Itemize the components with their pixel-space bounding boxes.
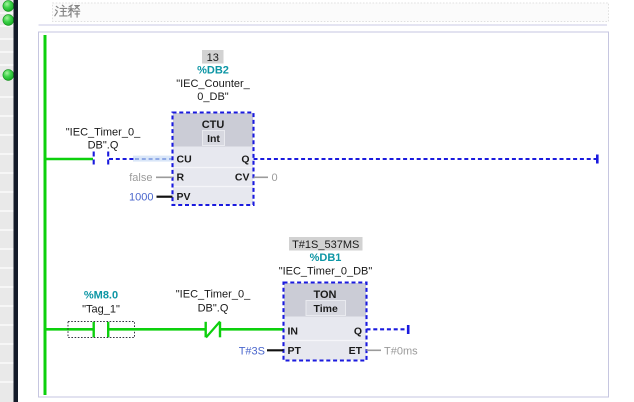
wire rail to contact (energized) — [45, 158, 93, 161]
svg-text:PT: PT — [288, 345, 302, 357]
block selection border (dashed blue) — [173, 113, 254, 206]
svg-text:"Tag_1": "Tag_1" — [82, 304, 120, 316]
highlighted wire segment background — [133, 156, 173, 162]
NO contact (selected, dashed blue) — [94, 152, 109, 166]
wire Q output open branch (selected dashed) — [367, 328, 408, 330]
status LED green row 6 — [3, 70, 14, 81]
svg-text:Time: Time — [314, 303, 338, 315]
wire Q output open branch (selected dashed) — [254, 158, 598, 160]
wire contact to NC contact — [108, 328, 205, 331]
svg-text:TON: TON — [313, 289, 336, 301]
注 — [55, 6, 58, 16]
open branch end tick — [596, 155, 599, 164]
svg-text:false: false — [129, 172, 152, 184]
operand selection box (dotted) — [68, 322, 135, 338]
svg-text:"IEC_Timer_0_: "IEC_Timer_0_ — [66, 127, 141, 139]
network comment box — [53, 3, 609, 22]
svg-text:Q: Q — [241, 154, 249, 166]
wire ET output — [367, 349, 382, 351]
block selection border (dashed blue) — [284, 283, 367, 361]
NO contact Tag_1 (energized) — [94, 322, 109, 338]
svg-text:Q: Q — [354, 326, 362, 338]
status LED green row 1 — [3, 1, 14, 12]
power rail (left, energized green) — [44, 35, 47, 395]
separator line under comment — [39, 24, 608, 26]
释 — [68, 5, 73, 17]
operand label "IEC_Timer_0_DB".Q — [66, 127, 141, 152]
data type badge Int — [203, 131, 225, 146]
status LED green row 2 — [3, 15, 14, 26]
left status gutter rows — [0, 0, 14, 402]
wire false to R — [156, 176, 173, 178]
wire 1000 to PV — [157, 196, 173, 198]
svg-text:13: 13 — [207, 52, 219, 64]
svg-text:IN: IN — [288, 326, 299, 338]
timer block U2 TON body — [284, 283, 366, 360]
data type badge Time — [306, 301, 346, 316]
dark divider bar — [14, 0, 19, 402]
svg-text:DB".Q: DB".Q — [198, 303, 229, 315]
svg-text:T#0ms: T#0ms — [384, 346, 418, 358]
svg-text:T#1S_537MS: T#1S_537MS — [292, 239, 359, 251]
wire rail to contact 2 (energized) — [45, 328, 93, 331]
svg-text:PV: PV — [177, 191, 191, 203]
svg-text:"IEC_Timer_0_DB": "IEC_Timer_0_DB" — [279, 266, 373, 278]
wire T#3S to PT — [267, 349, 284, 351]
comment text 注释 (drawn glyphs) — [55, 5, 80, 17]
svg-text:%DB2: %DB2 — [197, 65, 229, 77]
svg-text:CU: CU — [177, 154, 192, 166]
monitor value box T#1S_537MS — [289, 237, 363, 251]
svg-text:DB".Q: DB".Q — [88, 140, 119, 152]
svg-text:%DB1: %DB1 — [310, 252, 342, 264]
NC contact (energized) — [206, 322, 220, 338]
wire NC contact to IN — [220, 328, 284, 331]
open branch end tick — [407, 325, 410, 334]
wire contact to CU (selected dashed) — [109, 158, 135, 160]
wire CV output — [254, 176, 269, 178]
svg-text:Int: Int — [207, 133, 220, 145]
call info box "13" — [202, 50, 224, 64]
counter block U1 CTU body — [173, 113, 253, 205]
svg-text:CV: CV — [235, 172, 250, 184]
svg-text:0: 0 — [272, 172, 278, 184]
svg-text:"IEC_Counter_: "IEC_Counter_ — [176, 78, 250, 90]
svg-text:R: R — [177, 172, 185, 184]
instance name "IEC_Counter_0_DB" — [176, 78, 250, 103]
svg-text:1000: 1000 — [129, 192, 153, 204]
svg-text:0_DB": 0_DB" — [197, 91, 229, 103]
wire segment highlighted portion — [135, 158, 173, 160]
svg-text:ET: ET — [349, 345, 363, 357]
operand label "IEC_Timer_0_DB".Q (NC) — [176, 289, 251, 315]
svg-text:T#3S: T#3S — [239, 346, 265, 358]
svg-text:"IEC_Timer_0_: "IEC_Timer_0_ — [176, 289, 251, 301]
svg-text:%M8.0: %M8.0 — [84, 290, 118, 302]
svg-text:CTU: CTU — [202, 119, 225, 131]
